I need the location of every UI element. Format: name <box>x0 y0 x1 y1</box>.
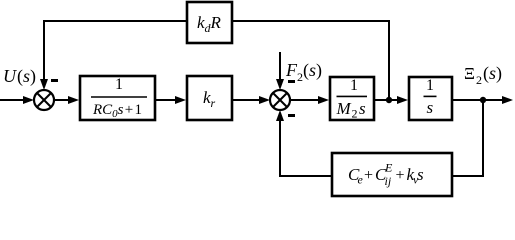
minus sign at S1 top input <box>51 79 58 82</box>
svg-text:s: s <box>309 60 316 80</box>
block G3: 1/(M2 s) <box>330 77 374 121</box>
svg-text:s: s <box>359 99 366 118</box>
svg-text:1: 1 <box>350 77 358 94</box>
svg-text:2: 2 <box>476 73 482 87</box>
node label U(s) input <box>3 66 36 87</box>
svg-text:2: 2 <box>352 107 358 121</box>
wire: bottom feedback into block H2 <box>453 175 484 177</box>
svg-text:+: + <box>364 167 373 184</box>
wire: down into S1 <box>40 21 48 90</box>
node label Xi2(s) output <box>464 63 502 87</box>
minus sign at S2 top input <box>288 80 295 83</box>
block H2: Ce + CijE + kv s <box>332 153 452 196</box>
svg-text:): ) <box>496 63 502 84</box>
svg-text:+: + <box>396 167 405 184</box>
wire: S1 to block G1 <box>54 96 79 104</box>
wire: input line into summing junction 1 <box>0 96 34 104</box>
wire: top feedback horizontal to block H1 <box>232 20 390 22</box>
wire: H1 output left <box>43 20 187 22</box>
svg-text:s: s <box>23 66 30 86</box>
block G4: 1/s <box>409 77 452 120</box>
svg-text:1: 1 <box>426 77 434 94</box>
wire: G4 to output with takeoff node <box>452 96 513 104</box>
svg-text:): ) <box>316 60 322 81</box>
svg-text:kdR: kdR <box>197 13 222 35</box>
block H1: kd R <box>187 2 232 43</box>
svg-text:M: M <box>336 99 352 118</box>
node N2 output takeoff dot <box>480 97 486 103</box>
wire: G2 to summing junction S2 <box>233 96 270 104</box>
wire: F2(s) disturbance input down into S2 <box>276 52 284 90</box>
svg-text:1: 1 <box>115 76 123 93</box>
minus sign at S2 bottom input <box>288 114 295 117</box>
svg-text:s: s <box>489 63 496 83</box>
wire: takeoff N1 up <box>388 21 390 100</box>
block G1: 1/(RC0s+1) <box>80 76 155 120</box>
wire: S2 to block G3 <box>290 96 329 104</box>
summing junction S1 <box>34 90 54 110</box>
svg-text:s: s <box>427 98 434 117</box>
wire: H2 output left <box>279 175 332 177</box>
wire: G1 to block G2 <box>155 96 186 104</box>
block G2: kr <box>187 76 232 120</box>
svg-text:e: e <box>358 173 364 187</box>
wire: takeoff N2 down <box>482 100 484 177</box>
wire: G3 to block G4 with takeoff node <box>374 96 408 104</box>
summing junction S2 <box>270 90 290 110</box>
svg-text:kr: kr <box>203 88 216 110</box>
svg-text:RC0s + 1: RC0s + 1 <box>92 102 142 120</box>
node N1 takeoff dot <box>386 97 392 103</box>
wire: up into S2 <box>276 110 284 177</box>
svg-text:Ξ: Ξ <box>464 64 475 83</box>
svg-text:E: E <box>384 161 393 175</box>
svg-text:ij: ij <box>385 174 392 188</box>
svg-text:s: s <box>417 165 424 184</box>
svg-text:): ) <box>30 66 36 87</box>
svg-text:U: U <box>3 66 17 86</box>
node label F2(s) <box>285 60 322 84</box>
